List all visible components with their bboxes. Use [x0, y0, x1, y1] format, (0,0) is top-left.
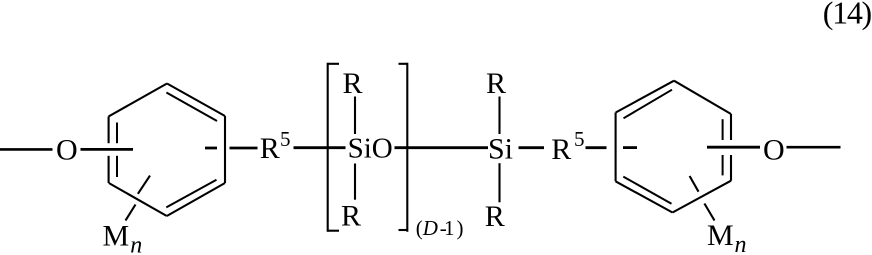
svg-text:SiO: SiO — [348, 133, 393, 165]
wire bond top R to Si — [354, 97, 356, 135]
svg-text:1: 1 — [444, 216, 455, 240]
label repeat count (D-1) — [416, 216, 464, 240]
svg-text:(14): (14) — [823, 0, 872, 31]
benzene ring left inner double bonds — [117, 93, 217, 208]
svg-text:R: R — [341, 200, 361, 233]
svg-text:5: 5 — [280, 127, 291, 151]
wire bond right Si to bottom R — [498, 163, 500, 202]
svg-text:(: ( — [416, 216, 423, 240]
label Mn right — [707, 219, 747, 255]
svg-text:n: n — [130, 232, 142, 255]
svg-text:5: 5 — [574, 127, 585, 151]
bracket right — [399, 63, 408, 232]
svg-text:Si: Si — [488, 132, 513, 165]
svg-text:R: R — [343, 67, 363, 100]
wire bond O to left ring — [81, 148, 134, 151]
svg-text:): ) — [457, 216, 464, 240]
benzene ring right outer — [616, 81, 732, 213]
wire bond R5 to bracket Si — [294, 146, 346, 149]
svg-text:n: n — [735, 232, 747, 255]
svg-text:R: R — [485, 200, 505, 233]
svg-text:R: R — [260, 132, 280, 165]
svg-text:O: O — [56, 134, 78, 167]
wire bond right Si to R5 — [519, 146, 545, 149]
svg-text:D: D — [422, 216, 438, 240]
label R5 right — [551, 127, 584, 166]
benzene ring right inner double bonds — [623, 90, 722, 204]
wire bond right ring to O — [707, 146, 760, 149]
svg-text:M: M — [707, 219, 734, 252]
wire attachment dash inside left ring — [205, 147, 217, 150]
label R5 left — [260, 127, 291, 165]
wire attachment dash inside right ring — [623, 146, 637, 149]
label Mn left — [103, 220, 143, 255]
benzene ring left outer — [109, 84, 226, 217]
wire bond Mn to left ring — [126, 176, 151, 221]
wire bond top R to right Si — [498, 97, 500, 135]
wire bond SiO to right Si — [395, 146, 489, 149]
svg-text:R: R — [486, 67, 506, 100]
wire right terminal bond — [787, 146, 841, 149]
wire bond Mn to right ring — [690, 176, 715, 221]
svg-text:O: O — [763, 134, 785, 167]
bracket left — [328, 63, 339, 232]
svg-text:M: M — [103, 220, 130, 253]
wire bond R5 to right ring — [586, 146, 607, 149]
wire bond Si to bottom R — [354, 164, 356, 200]
svg-text:R: R — [551, 133, 571, 166]
wire bond left ring to R5 — [230, 147, 258, 150]
wire left terminal bond — [0, 148, 53, 151]
